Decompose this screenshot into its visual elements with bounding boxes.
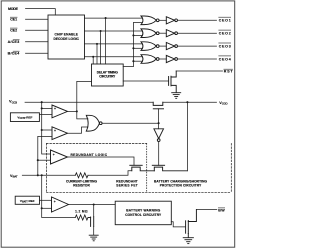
node RST label bbox=[224, 70, 234, 74]
wire CEO3 output bbox=[178, 45, 217, 47]
ground for Q5 bbox=[89, 235, 98, 241]
wire NOR B output bbox=[102, 122, 159, 124]
wire VCCO to battery switch bbox=[186, 102, 188, 171]
resistor R2 1.2 Mohm bbox=[75, 215, 88, 220]
wire Q2 gate lead bbox=[158, 109, 160, 123]
node MODE label bbox=[8, 7, 19, 11]
node CEO4 label bbox=[219, 57, 231, 61]
gate inverter3 bbox=[166, 43, 177, 50]
wire VBAT to comparator D minus and 1.2Mohm bbox=[41, 175, 43, 208]
wire inverter to protection FET gate bbox=[158, 142, 160, 166]
wire CE1 input bbox=[26, 18, 49, 20]
node A/CE3 label bbox=[8, 40, 20, 44]
node CEO3 label bbox=[219, 45, 231, 49]
node BW label bbox=[218, 208, 225, 212]
wire CEO2 output bbox=[178, 32, 217, 34]
wire Q5 source bbox=[93, 226, 95, 235]
dashed box redundant section top bbox=[47, 143, 147, 145]
label REDUNDANT LOGIC bbox=[71, 153, 108, 157]
dashed box bottom edge bbox=[47, 191, 232, 193]
svg-text:CONTROL CIRCUITRY: CONTROL CIRCUITRY bbox=[125, 213, 162, 217]
node VBAT label bbox=[10, 174, 18, 179]
wire RST output bbox=[176, 70, 222, 72]
svg-text:REDUNDANT LOGIC: REDUNDANT LOGIC bbox=[71, 153, 108, 157]
wire delay to NOR B top input bbox=[77, 81, 92, 119]
wire decode output 4 bbox=[85, 56, 143, 58]
svg-text:DECODE LOGIC: DECODE LOGIC bbox=[53, 37, 79, 41]
wire comparator B output bbox=[68, 127, 89, 133]
wire B/CE4 input bbox=[26, 52, 49, 54]
wire A/CE3 input bbox=[26, 41, 49, 43]
block U1 chip enable decode logic bbox=[48, 15, 85, 59]
node junction dot A plus bbox=[41, 107, 43, 109]
border frame bbox=[1, 1, 235, 247]
node junction dot output3 bbox=[96, 43, 98, 45]
node B/CE4 label bbox=[8, 52, 20, 56]
wire CEO1 output bbox=[178, 19, 217, 21]
svg-text:VCCO: VCCO bbox=[219, 101, 228, 106]
wire BW output bbox=[196, 209, 216, 211]
node junction dot A output / delay bbox=[76, 110, 78, 112]
dashed divider between sections bbox=[146, 144, 148, 193]
ground for Q6 bbox=[183, 238, 193, 244]
node junction dot gate3 bottom bbox=[132, 47, 134, 49]
svg-text:+: + bbox=[54, 200, 56, 204]
gate NOR B bbox=[86, 115, 102, 131]
label REDUNDANT SERIES FET bbox=[116, 180, 138, 188]
svg-text:RESISTOR: RESISTOR bbox=[73, 184, 90, 188]
svg-text:BW: BW bbox=[218, 208, 225, 212]
wire stub D minus bbox=[42, 207, 52, 209]
wire drop to delay 3 bbox=[96, 44, 98, 64]
wire comparator C output to redundant FET gate bbox=[68, 157, 135, 165]
transistor Q1 RST driver bbox=[169, 71, 177, 92]
svg-text:+: + bbox=[54, 107, 56, 111]
node junction dot VCCO battery feed bbox=[186, 101, 188, 103]
node CE2 label bbox=[10, 29, 17, 33]
wire NOR3 to inv3 bbox=[159, 45, 166, 47]
block VCCTP REF bbox=[10, 113, 39, 122]
transistor Q3 redundant series FET bbox=[130, 165, 155, 171]
wire drop to delay 2 bbox=[100, 31, 102, 64]
gate NOR3 bbox=[141, 42, 159, 51]
dashed box right edge bbox=[230, 144, 232, 193]
node junction dot gate2 bottom bbox=[132, 34, 134, 36]
svg-text:CIRCUITRY: CIRCUITRY bbox=[99, 75, 116, 79]
label 1.2 Mohm bbox=[75, 210, 88, 214]
wire drop to delay 1 bbox=[105, 18, 107, 64]
resistor R1 current limiting bbox=[75, 173, 88, 178]
wire NOR4 to inv4 bbox=[159, 58, 166, 60]
wire stub gate4 bottom bbox=[133, 60, 142, 62]
wire resistor to redundant FET bbox=[88, 171, 132, 176]
wire delay to RST FET gate bbox=[123, 80, 168, 82]
svg-text:VCCTP REF: VCCTP REF bbox=[17, 116, 32, 121]
wire VCC3 sense bus bbox=[42, 102, 51, 154]
node junction dot warning FET drain bbox=[93, 203, 95, 205]
wire stub C minus bbox=[38, 159, 51, 161]
wire stub B plus bbox=[42, 129, 52, 131]
svg-text:RST: RST bbox=[224, 70, 234, 74]
node junction dot VBAT sense bbox=[37, 174, 39, 176]
svg-text:CEO3: CEO3 bbox=[219, 45, 231, 49]
dashed box redundant section left bbox=[46, 144, 48, 193]
wire Q5 drain bbox=[93, 205, 95, 217]
block U2 delay timing circuitry bbox=[92, 64, 124, 86]
node junction dot B plus bbox=[41, 129, 43, 131]
wire CEO4 output bbox=[178, 58, 217, 60]
transistor Q4 protection FET bbox=[152, 165, 187, 171]
svg-text:CHIP ENABLE: CHIP ENABLE bbox=[54, 32, 78, 36]
svg-text:VBATT REF: VBATT REF bbox=[20, 199, 35, 204]
svg-text:CE2: CE2 bbox=[10, 29, 17, 33]
svg-text:A/CE3: A/CE3 bbox=[8, 40, 20, 44]
svg-text:MODE: MODE bbox=[8, 7, 19, 11]
op-amp comparator B bbox=[52, 127, 68, 140]
svg-text:+: + bbox=[54, 129, 56, 133]
transistor Q5 warning FET bbox=[88, 217, 94, 227]
svg-text:VCC3: VCC3 bbox=[9, 99, 17, 105]
node CEO1 label bbox=[219, 19, 231, 23]
wire stub A plus bbox=[42, 107, 52, 109]
wire MODE input bbox=[26, 9, 56, 15]
gate inverter down bbox=[158, 123, 160, 129]
block VBATT REF bbox=[15, 196, 39, 204]
wire stub gate2 bottom bbox=[133, 34, 142, 36]
gate NOR1 bbox=[141, 16, 159, 25]
wire VCCO rail bbox=[163, 101, 217, 103]
svg-text:CEO2: CEO2 bbox=[219, 32, 231, 36]
op-amp comparator C redundant bbox=[51, 150, 68, 164]
node VCCO label bbox=[219, 101, 228, 106]
node VCC3 label bbox=[9, 99, 17, 105]
wire NOR2 to inv2 bbox=[159, 32, 166, 34]
wire comparator A output bbox=[68, 110, 77, 112]
svg-text:CEO1: CEO1 bbox=[219, 19, 231, 23]
node junction dot VBAT warning sense bbox=[41, 174, 43, 176]
wire stub gate3 bottom bbox=[133, 47, 142, 49]
node CE1 label bbox=[10, 18, 17, 22]
node CEO2 label bbox=[219, 32, 231, 36]
svg-text:VBAT: VBAT bbox=[10, 174, 18, 179]
gate inverter1 bbox=[166, 17, 177, 24]
wire decode output 3 bbox=[85, 43, 143, 45]
svg-text:+: + bbox=[53, 153, 55, 157]
gate NOR2 bbox=[141, 29, 159, 38]
transistor Q6 BW driver bbox=[186, 210, 197, 238]
svg-text:SERIES FET: SERIES FET bbox=[116, 184, 138, 188]
gate inverter4 bbox=[166, 55, 177, 62]
svg-text:CE1: CE1 bbox=[10, 18, 17, 22]
wire VBAT sense to B minus bbox=[38, 136, 52, 175]
wire VCC3 rail bbox=[25, 101, 153, 103]
node junction dot D minus bbox=[41, 207, 43, 209]
wire VCCTP REF to comparator A minus bbox=[39, 113, 52, 115]
wire VBATT REF to comparator D plus bbox=[40, 199, 52, 201]
op-amp comparator D battery warning bbox=[52, 197, 69, 212]
node junction dot C minus bbox=[37, 159, 39, 161]
op-amp comparator A bbox=[52, 105, 68, 118]
transistor Q2 VCCO pass FET bbox=[153, 102, 163, 109]
node junction dot output4 bbox=[92, 56, 94, 58]
wire VBAT feed bbox=[22, 174, 75, 176]
wire decode output 1 bbox=[85, 17, 143, 19]
ground for Q1 bbox=[172, 93, 181, 99]
svg-text:PROTECTION CIRCUITRY: PROTECTION CIRCUITRY bbox=[160, 184, 202, 188]
block battery warning control circuitry bbox=[115, 201, 171, 225]
node junction dot output1 bbox=[105, 17, 107, 19]
wire CE2 input bbox=[26, 29, 49, 31]
wire delay output to gate bottom inputs bbox=[123, 23, 142, 67]
wire drop to delay 4 bbox=[92, 57, 94, 64]
label CURRENT-LIMITING RESISTOR bbox=[66, 180, 98, 188]
svg-text:1.2 MΩ: 1.2 MΩ bbox=[75, 210, 88, 214]
svg-text:CEO4: CEO4 bbox=[219, 57, 231, 61]
node junction dot gate4 bottom bbox=[132, 60, 134, 62]
wire comparator D output bbox=[69, 204, 116, 206]
label BATTERY CHARGING/SHORTING PROTECTION CIRCUITRY bbox=[154, 180, 208, 188]
node junction dot output2 bbox=[100, 30, 102, 32]
svg-text:B/CE4: B/CE4 bbox=[8, 52, 20, 56]
wire VBAT to resistor R2 bbox=[42, 208, 76, 217]
wire NOR1 to inv1 bbox=[159, 19, 166, 21]
node junction dot VCC3 sense bbox=[41, 101, 43, 103]
wire warning box to BW FET gate bbox=[171, 222, 185, 227]
node junction dot switch control bbox=[158, 122, 160, 124]
gate inverter2 bbox=[166, 30, 177, 37]
wire decode output 2 bbox=[85, 30, 143, 32]
gate NOR4 bbox=[141, 55, 159, 64]
